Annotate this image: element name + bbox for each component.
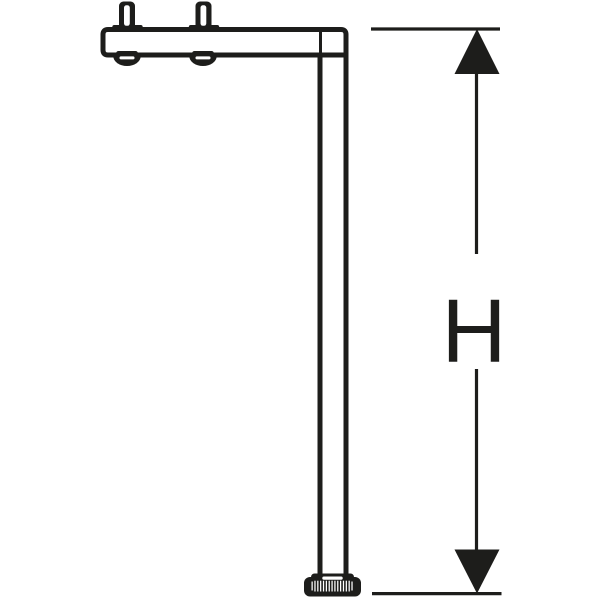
svg-text:H: H bbox=[442, 281, 507, 381]
